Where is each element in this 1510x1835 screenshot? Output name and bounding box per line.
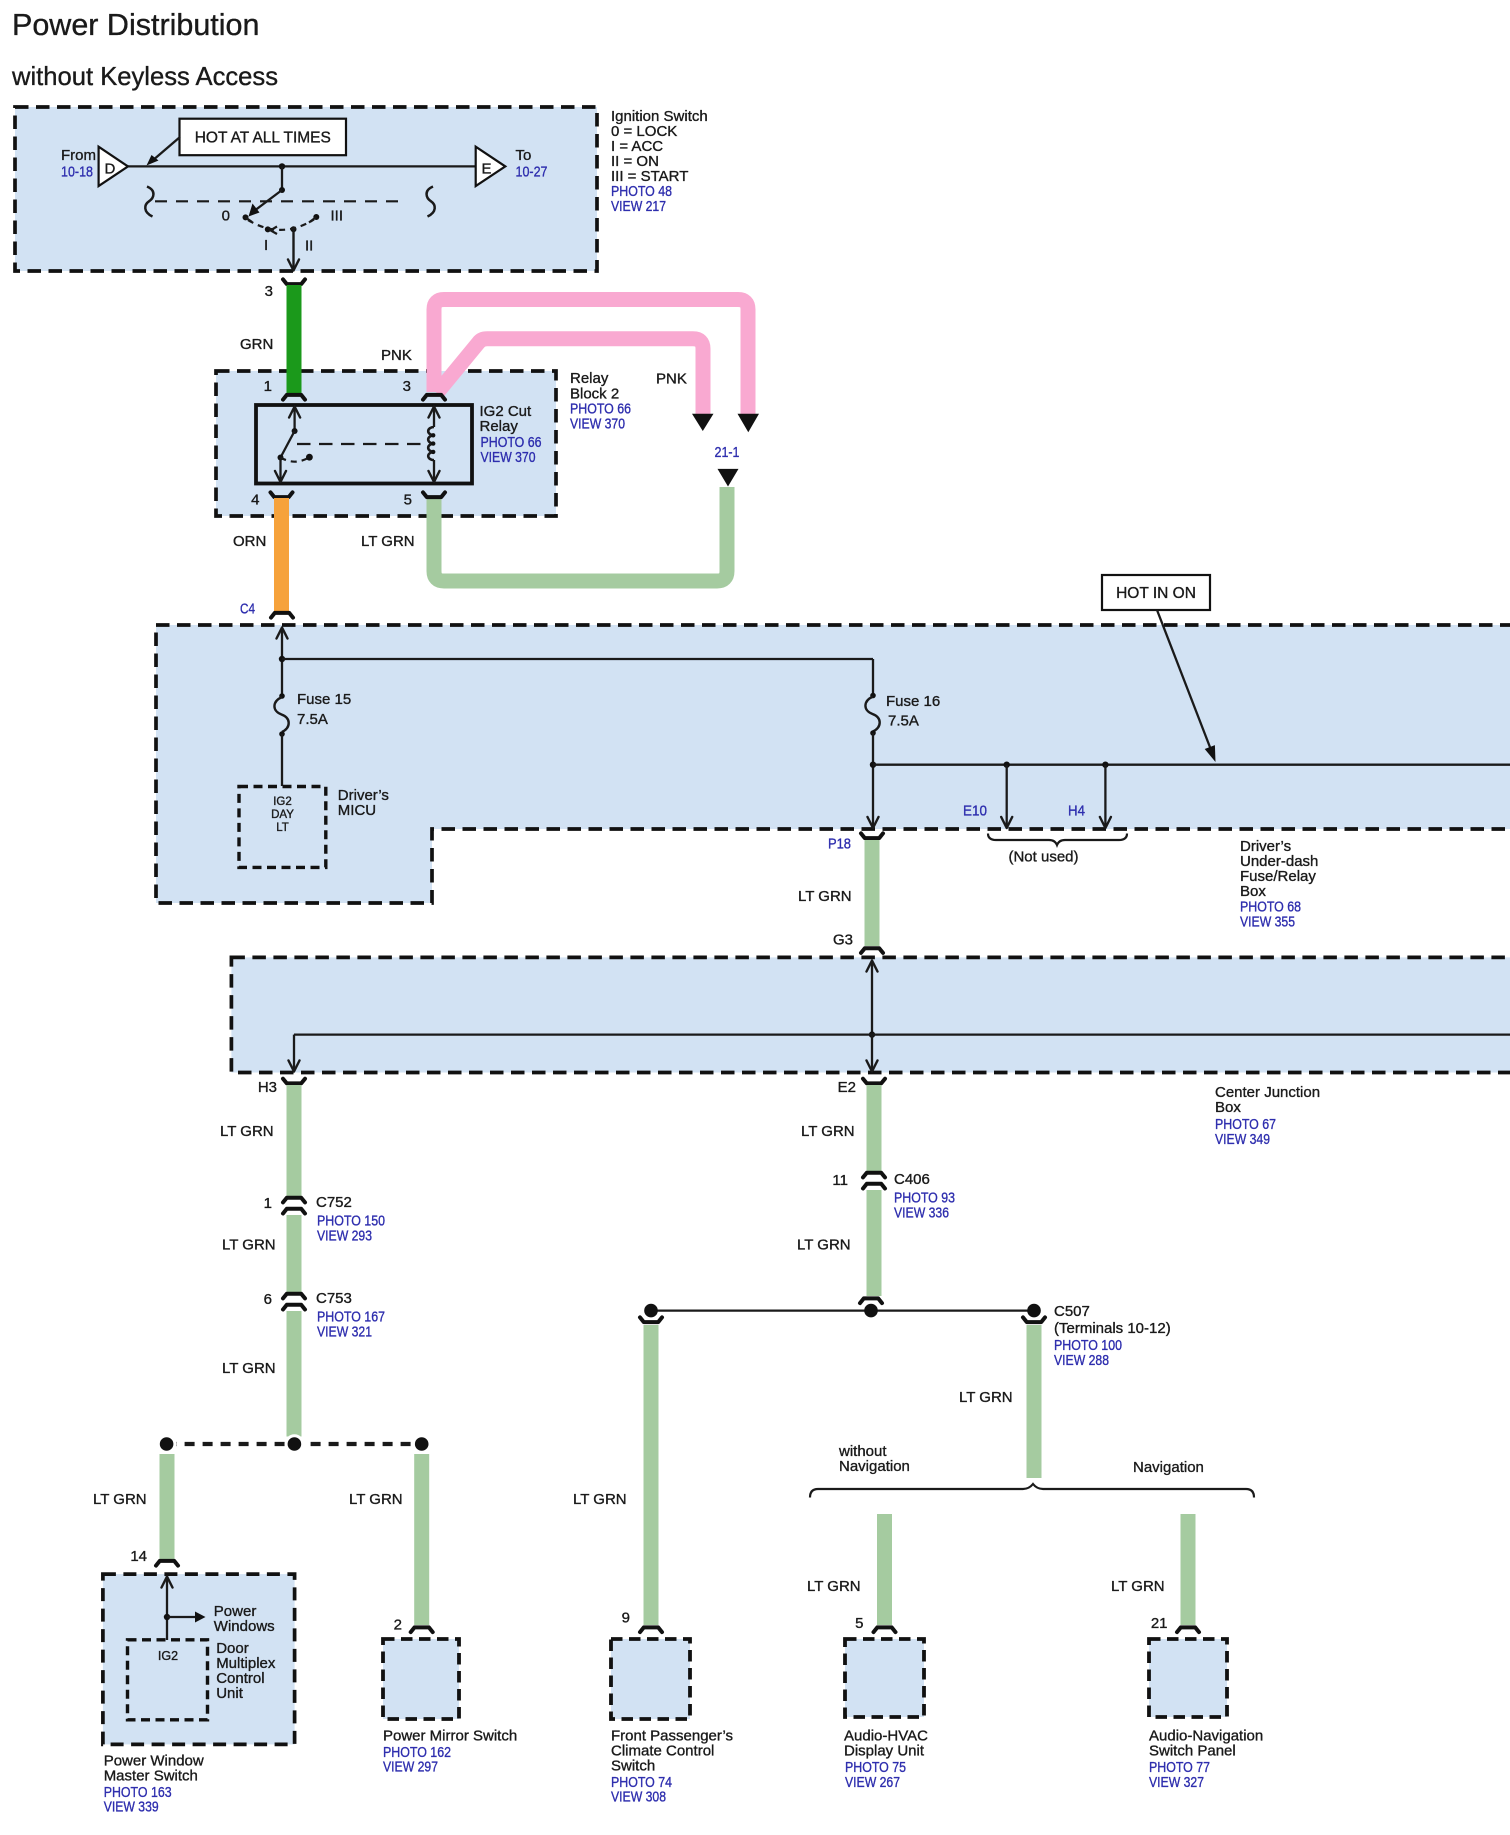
arc stubs at 0 and III <box>246 217 253 222</box>
svg-text:PNK: PNK <box>656 371 687 388</box>
svg-text:Box: Box <box>1215 1099 1241 1116</box>
terminal G3 connector <box>861 948 883 953</box>
driver's under-dash fuse/relay box (MICU) <box>156 625 1510 903</box>
svg-text:Fuse 15: Fuse 15 <box>297 691 351 708</box>
svg-text:Fuse 16: Fuse 16 <box>886 693 940 710</box>
connector arc at splice <box>860 1298 882 1303</box>
svg-text:LT GRN: LT GRN <box>959 1389 1013 1406</box>
svg-text:Master Switch: Master Switch <box>104 1768 198 1785</box>
svg-text:VIEW 355: VIEW 355 <box>1240 914 1295 931</box>
wire PNK outer: pin 3 to 21-1 <box>434 300 748 416</box>
pin 5 connector (audio-hvac) <box>874 1627 896 1632</box>
relay armature link dot <box>306 454 313 461</box>
svg-text:LT GRN: LT GRN <box>222 1360 276 1377</box>
wire LT GRN: P18 to G3 <box>865 840 880 946</box>
svg-text:Navigation: Navigation <box>839 1458 910 1475</box>
svg-text:10-18: 10-18 <box>61 164 93 181</box>
ignition switch box <box>15 107 597 271</box>
connector C753 <box>283 1294 305 1299</box>
dashed splice bus <box>167 1442 422 1446</box>
svg-text:VIEW 321: VIEW 321 <box>317 1324 372 1341</box>
svg-text:Windows: Windows <box>214 1618 275 1635</box>
terminal H4 (not used) <box>1102 762 1108 768</box>
svg-text:Box: Box <box>1240 883 1266 900</box>
svg-text:C406: C406 <box>894 1171 930 1188</box>
svg-text:Switch Panel: Switch Panel <box>1149 1743 1236 1760</box>
relay pin 5 connector <box>423 492 445 497</box>
wire LT GRN: C752 to C753 <box>287 1215 302 1293</box>
wire LT GRN: without navigation branch <box>877 1514 892 1625</box>
terminal E2 connector <box>863 1079 885 1084</box>
wire: H3 drop <box>293 1035 295 1070</box>
brace: not used terminals <box>988 834 1127 846</box>
svg-text:To: To <box>516 147 532 164</box>
svg-text:H4: H4 <box>1068 803 1085 820</box>
splice node right C507 <box>1027 1304 1041 1318</box>
pin 14 connector <box>156 1561 178 1566</box>
svg-text:LT GRN: LT GRN <box>349 1491 403 1508</box>
wire LT GRN: C753 to splice <box>287 1311 302 1437</box>
svg-text:LT GRN: LT GRN <box>573 1491 627 1508</box>
svg-text:Power Distribution: Power Distribution <box>12 8 260 42</box>
dashed travel arc <box>248 220 314 230</box>
splice node left <box>157 1434 177 1454</box>
pointer arrow from callout to feed wire <box>152 137 180 161</box>
svg-text:6: 6 <box>264 1291 272 1308</box>
node: switch pivot on feed wire <box>279 163 285 169</box>
svg-text:VIEW 217: VIEW 217 <box>611 198 666 215</box>
callout box: HOT IN ON <box>1102 575 1210 610</box>
svg-text:III: III <box>331 208 344 225</box>
svg-text:E2: E2 <box>838 1079 856 1096</box>
svg-text:LT GRN: LT GRN <box>1111 1578 1165 1595</box>
svg-text:GRN: GRN <box>240 336 273 353</box>
connector C4 <box>271 613 293 618</box>
svg-text:LT GRN: LT GRN <box>807 1578 861 1595</box>
wire LT GRN: E2 to C406 <box>867 1085 882 1173</box>
svg-text:VIEW 267: VIEW 267 <box>845 1774 900 1791</box>
front passenger's climate control switch box <box>611 1639 690 1719</box>
svg-text:4: 4 <box>251 492 259 509</box>
svg-text:2: 2 <box>394 1617 402 1634</box>
svg-text:VIEW 297: VIEW 297 <box>383 1759 438 1776</box>
wire: internal bus <box>294 1033 1510 1035</box>
svg-text:Navigation: Navigation <box>1133 1459 1204 1476</box>
svg-text:Relay: Relay <box>570 370 609 387</box>
wire LT GRN: navigation branch <box>1181 1514 1196 1625</box>
continuation squiggle right <box>427 187 435 217</box>
svg-text:G3: G3 <box>833 932 853 949</box>
svg-text:VIEW 339: VIEW 339 <box>104 1799 159 1816</box>
relay block 2 box <box>216 371 556 516</box>
wire LT GRN: C406 to splice bus <box>867 1190 882 1296</box>
connector C406 <box>863 1173 885 1178</box>
wire: hot-in-on bus <box>873 764 1510 766</box>
svg-text:Relay: Relay <box>480 418 519 435</box>
terminal H3 connector <box>283 1079 305 1084</box>
svg-text:C4: C4 <box>240 601 255 618</box>
center junction box <box>231 957 1510 1072</box>
wire LT GRN: C507 to navigation brace <box>1027 1325 1042 1478</box>
callout box: HOT AT ALL TIMES <box>180 119 347 156</box>
pin 2 connector <box>411 1627 433 1632</box>
svg-text:5: 5 <box>855 1615 863 1632</box>
svg-text:From: From <box>61 147 96 164</box>
svg-text:LT GRN: LT GRN <box>222 1237 276 1254</box>
svg-text:7.5A: 7.5A <box>297 711 328 728</box>
relay switch contact <box>289 407 300 418</box>
svg-text:VIEW 349: VIEW 349 <box>1215 1131 1270 1148</box>
relay pin 3 connector <box>423 395 445 400</box>
svg-text:3: 3 <box>265 283 273 300</box>
splice node left (to climate control) <box>644 1304 658 1318</box>
off-page connector E (to 10-27) <box>476 147 506 186</box>
IG2 cut relay inner box <box>256 405 472 484</box>
svg-text:II: II <box>305 238 313 255</box>
svg-text:(Not used): (Not used) <box>1008 849 1078 866</box>
audio-navigation switch panel box <box>1149 1639 1227 1717</box>
svg-text:VIEW 293: VIEW 293 <box>317 1228 372 1245</box>
wire: battery feed D to E <box>128 165 476 167</box>
svg-text:LT GRN: LT GRN <box>797 1237 851 1254</box>
svg-text:IG2: IG2 <box>273 796 292 808</box>
svg-text:LT GRN: LT GRN <box>93 1491 147 1508</box>
off-page connector D (from 10-18) <box>99 147 128 186</box>
node: feed split <box>279 656 285 662</box>
wire: G3 entry <box>867 961 878 972</box>
wire LT GRN: splice to power window master switch <box>160 1454 175 1559</box>
svg-text:LT GRN: LT GRN <box>801 1123 855 1140</box>
svg-text:H3: H3 <box>258 1079 277 1096</box>
terminal P18 exit arrow <box>868 817 879 828</box>
svg-text:LT GRN: LT GRN <box>220 1123 274 1140</box>
svg-text:14: 14 <box>130 1548 147 1565</box>
svg-text:Unit: Unit <box>216 1685 244 1702</box>
node: junction box split <box>869 1031 875 1037</box>
continuation squiggle left <box>145 187 153 217</box>
svg-text:3: 3 <box>403 378 411 395</box>
svg-text:Display Unit: Display Unit <box>844 1743 925 1760</box>
svg-text:VIEW 336: VIEW 336 <box>894 1205 949 1222</box>
splice node right <box>412 1434 432 1454</box>
svg-text:without Keyless Access: without Keyless Access <box>11 63 278 91</box>
audio-hvac display unit box <box>845 1639 924 1717</box>
svg-text:HOT IN ON: HOT IN ON <box>1116 585 1196 602</box>
connector arc below C507 splice <box>1023 1317 1045 1322</box>
svg-text:5: 5 <box>404 492 412 509</box>
splice node middle <box>285 1434 305 1454</box>
svg-text:9: 9 <box>622 1610 630 1627</box>
fuse 15 <box>279 693 285 699</box>
svg-text:PNK: PNK <box>381 347 412 364</box>
pin 9 connector <box>640 1627 662 1632</box>
svg-text:Power Mirror Switch: Power Mirror Switch <box>383 1728 517 1745</box>
wire LT GRN: splice to power mirror switch <box>414 1454 429 1625</box>
switch position contacts 0 I II III <box>243 214 249 220</box>
svg-text:VIEW 370: VIEW 370 <box>570 416 625 433</box>
svg-text:DAY: DAY <box>271 809 294 821</box>
svg-text:1: 1 <box>264 1195 272 1212</box>
svg-text:MICU: MICU <box>338 802 376 819</box>
svg-text:1: 1 <box>264 378 272 395</box>
relay mechanical dashed link <box>297 443 427 445</box>
pointer arrow from HOT IN ON to bus <box>1157 610 1211 749</box>
relay coil <box>429 407 440 418</box>
wire PNK inner: pin 3 to 21-1 <box>437 339 703 415</box>
wire ORN <box>274 498 289 611</box>
wire: E2 drop <box>871 1035 873 1070</box>
power window master switch box <box>103 1574 295 1744</box>
svg-text:VIEW 327: VIEW 327 <box>1149 1774 1204 1791</box>
svg-text:LT GRN: LT GRN <box>798 888 852 905</box>
svg-text:21-1: 21-1 <box>715 444 740 461</box>
svg-text:0: 0 <box>222 208 230 225</box>
svg-text:I: I <box>264 237 268 254</box>
svg-text:7.5A: 7.5A <box>888 713 919 730</box>
svg-text:P18: P18 <box>828 836 851 853</box>
svg-text:11: 11 <box>832 1172 848 1189</box>
svg-text:E10: E10 <box>963 803 987 820</box>
sub-box IG2 DAY LT <box>239 787 326 868</box>
ignition switch movable contact arm <box>254 190 283 212</box>
svg-text:ORN: ORN <box>233 533 266 550</box>
svg-text:D: D <box>105 161 116 178</box>
dashed switch body line <box>155 200 404 202</box>
terminal P18 connector <box>861 833 883 838</box>
wire: pivot stem <box>281 166 283 190</box>
wire LT GRN: splice to climate control switch <box>644 1325 659 1625</box>
svg-text:(Terminals 10-12): (Terminals 10-12) <box>1054 1320 1171 1337</box>
brace: navigation variants <box>810 1484 1254 1498</box>
splice node middle <box>864 1304 878 1318</box>
arrow: to power windows <box>167 1616 197 1618</box>
svg-text:21: 21 <box>1151 1615 1168 1632</box>
wire: internal feed to fuse 16 branch <box>282 658 873 660</box>
power mirror switch box <box>383 1639 459 1719</box>
wire: C4 entry into MICU <box>277 628 288 639</box>
svg-text:C752: C752 <box>316 1194 352 1211</box>
wire GRN <box>287 285 302 393</box>
svg-text:HOT AT ALL TIMES: HOT AT ALL TIMES <box>195 130 331 147</box>
connector arc below splice <box>640 1317 662 1322</box>
connector C752 <box>283 1198 305 1203</box>
svg-text:LT: LT <box>276 822 289 834</box>
svg-text:10-27: 10-27 <box>516 164 548 181</box>
sub-box IG2 (door multiplex control unit) <box>128 1640 208 1720</box>
svg-text:VIEW 308: VIEW 308 <box>611 1789 666 1806</box>
svg-text:LT GRN: LT GRN <box>361 533 415 550</box>
svg-text:VIEW 288: VIEW 288 <box>1054 1352 1109 1369</box>
wire: pin 14 entry <box>162 1577 173 1588</box>
svg-text:C507: C507 <box>1054 1303 1090 1320</box>
svg-text:Switch: Switch <box>611 1758 655 1775</box>
pin 21 connector (audio-navigation) <box>1177 1627 1199 1632</box>
wire: ignition output II down to pin 3 <box>292 229 294 269</box>
svg-text:E: E <box>482 161 492 178</box>
relay pin 4 connector <box>271 492 293 497</box>
solid splice bus <box>651 1309 1034 1311</box>
svg-text:VIEW 370: VIEW 370 <box>481 449 536 466</box>
pin 3 connector of ignition switch <box>283 279 305 284</box>
svg-text:IG2: IG2 <box>158 1649 178 1663</box>
relay pin 1 connector <box>283 395 305 400</box>
fuse 16 <box>870 693 876 699</box>
terminal E10 (not used) <box>1004 762 1010 768</box>
node: internal split <box>164 1614 170 1620</box>
wire LT GRN: 21-1 return to pin 5 <box>434 487 727 581</box>
svg-text:C753: C753 <box>316 1290 352 1307</box>
wire LT GRN: H3 to C752 <box>287 1085 302 1197</box>
node: fuse 16 output <box>870 762 876 768</box>
